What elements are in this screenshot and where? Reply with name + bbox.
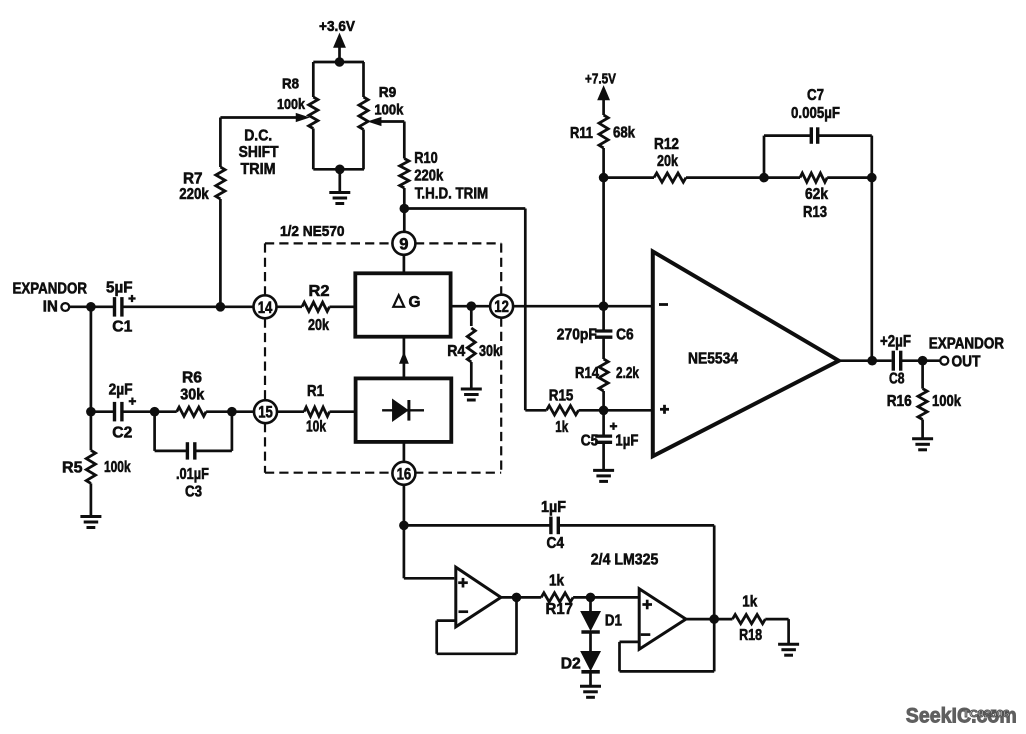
svg-text:C4: C4 xyxy=(547,535,565,552)
svg-text:SHIFT: SHIFT xyxy=(239,144,279,161)
block diode box xyxy=(356,378,452,442)
svg-text:0.005µF: 0.005µF xyxy=(791,105,840,122)
resistor R7 220k xyxy=(216,167,225,199)
pin 9 circle xyxy=(392,232,415,255)
node U2a output junction xyxy=(512,593,522,603)
node D1 junction xyxy=(586,593,596,603)
svg-text:100k: 100k xyxy=(277,96,306,113)
node R4 junction xyxy=(467,301,477,311)
plus sign U1 xyxy=(660,408,669,411)
dashed box 1/2 NE570 top edge xyxy=(265,242,392,244)
wire C7 branch left xyxy=(763,136,766,178)
node R6 left junction xyxy=(150,407,160,417)
svg-text:1k: 1k xyxy=(549,572,564,589)
minus sign U2b xyxy=(641,633,651,636)
wire U2b feedback xyxy=(620,641,640,644)
ground C5 xyxy=(602,442,605,470)
svg-text:2µF: 2µF xyxy=(109,382,133,399)
plus C5 xyxy=(610,425,617,427)
svg-text:R8: R8 xyxy=(282,76,299,93)
wire R10 to pin9 xyxy=(403,188,406,232)
op-amp U2a xyxy=(456,567,501,627)
resistor R15 1k xyxy=(525,409,546,412)
svg-text:1/2 NE570: 1/2 NE570 xyxy=(280,223,345,240)
svg-text:R4: R4 xyxy=(447,343,465,360)
plus C1 xyxy=(128,297,135,299)
svg-text:TRIM: TRIM xyxy=(241,161,276,178)
capacitor C7 0.005uF xyxy=(810,127,813,144)
wire pin15 to R1 xyxy=(277,410,304,413)
svg-text:R5: R5 xyxy=(62,459,83,476)
svg-text:R7: R7 xyxy=(183,171,203,188)
resistor R14 2.2k xyxy=(599,359,608,391)
svg-text:C7: C7 xyxy=(807,87,824,104)
svg-text:+3.6V: +3.6V xyxy=(319,18,355,35)
svg-text:R12: R12 xyxy=(654,136,679,153)
svg-text:68k: 68k xyxy=(613,125,635,142)
svg-text:C8: C8 xyxy=(889,371,905,388)
resistor R1 10k xyxy=(304,407,329,416)
wire to op-amp1 plus xyxy=(403,525,406,578)
wire C6 top xyxy=(602,306,605,331)
wire pin12 to op-amp xyxy=(513,305,653,308)
svg-text:NE5534: NE5534 xyxy=(688,351,738,368)
svg-text:D.C.: D.C. xyxy=(244,127,272,144)
wire R7 top xyxy=(219,118,222,168)
wire C8 to OUT xyxy=(900,359,940,362)
svg-text:R2: R2 xyxy=(309,283,330,300)
node U2b output junction xyxy=(709,614,719,624)
node C6 top junction xyxy=(599,301,609,311)
svg-text:R17: R17 xyxy=(546,601,574,618)
svg-text:C6: C6 xyxy=(616,327,634,344)
wire D1 to D2 xyxy=(589,632,592,652)
wire R6 to pin15 xyxy=(206,410,254,413)
svg-text:30k: 30k xyxy=(180,387,204,404)
resistor R2 20k xyxy=(302,302,330,311)
svg-text:R6: R6 xyxy=(182,370,202,387)
svg-text:R13: R13 xyxy=(803,204,827,221)
node C7 left junction xyxy=(759,173,769,183)
wire C2 to R6 xyxy=(122,410,176,413)
arrow R8 wiper xyxy=(297,114,308,121)
wire op-amp output xyxy=(839,359,892,362)
svg-text:20k: 20k xyxy=(308,317,329,334)
svg-text:100k: 100k xyxy=(374,101,404,118)
node R6 right junction xyxy=(227,407,237,417)
pin 14 circle xyxy=(254,295,277,318)
wire pin9 to deltaG box xyxy=(403,255,406,274)
pin 12 circle xyxy=(490,295,513,318)
diode D2 xyxy=(581,652,599,670)
svg-text:10k: 10k xyxy=(306,419,326,436)
svg-text:2/4 LM325: 2/4 LM325 xyxy=(591,552,659,569)
wire R7 bottom xyxy=(219,199,222,307)
svg-text:R11: R11 xyxy=(570,125,593,142)
resistor R12 20k xyxy=(654,173,686,182)
svg-text:R1: R1 xyxy=(307,383,324,400)
resistor R9 100k xyxy=(359,97,368,130)
wire U2a feedback xyxy=(437,619,456,622)
plus sign U2a xyxy=(458,581,468,584)
wire R11 junction down xyxy=(602,178,605,307)
pin 15 circle xyxy=(254,400,277,423)
resistor R16 100k xyxy=(921,361,924,389)
wire R2 to deltaG box xyxy=(330,305,356,308)
wire R12 to R13 xyxy=(686,176,800,179)
symbol delta xyxy=(393,295,404,307)
minus sign U1 xyxy=(659,303,668,306)
capacitor C8 2uF xyxy=(892,351,895,371)
svg-text:R9: R9 xyxy=(379,84,397,101)
node input junction xyxy=(86,302,96,312)
wire C4 left xyxy=(404,524,550,527)
svg-text:C5: C5 xyxy=(581,432,599,449)
wire deltaG to diode box xyxy=(403,337,406,379)
svg-text:220k: 220k xyxy=(414,167,443,184)
wire input vertical xyxy=(90,307,93,412)
svg-text:G: G xyxy=(409,294,421,311)
svg-text:1µF: 1µF xyxy=(541,499,566,516)
wire diode box to pin16 xyxy=(403,442,406,463)
ground D2 xyxy=(589,672,592,686)
wire R13 right xyxy=(827,176,872,179)
svg-text:R10: R10 xyxy=(414,150,438,167)
ground R5 xyxy=(90,483,93,516)
capacitor C2 2uF xyxy=(113,402,116,422)
svg-text:1µF: 1µF xyxy=(615,432,638,449)
capacitor C6 270pF xyxy=(595,329,613,332)
op-amp U1 NE5534 xyxy=(653,252,839,457)
svg-text:16: 16 xyxy=(397,464,412,483)
plus sign U2b xyxy=(642,603,652,606)
diode D1 xyxy=(581,612,599,630)
wire pin14 to R2 xyxy=(276,305,302,308)
wire R12 left xyxy=(604,176,654,179)
wire feedback down xyxy=(870,178,873,361)
wire to op-amp plus xyxy=(604,409,653,412)
svg-text:100k: 100k xyxy=(104,459,131,476)
svg-text:+7.5V: +7.5V xyxy=(585,71,616,88)
node trimmer top junction xyxy=(335,57,345,67)
wire C6 to R14 xyxy=(602,337,605,359)
ground R4 xyxy=(470,362,473,389)
capacitor C5 1uF xyxy=(602,410,605,436)
op-amp U2b xyxy=(639,589,686,650)
wire R4 top xyxy=(470,306,473,326)
resistor R4 30k xyxy=(467,328,475,362)
svg-text:2.2k: 2.2k xyxy=(616,365,639,382)
plus C2 xyxy=(129,400,136,402)
svg-text:EXPANDOR: EXPANDOR xyxy=(929,336,1004,353)
svg-text:C3: C3 xyxy=(185,484,202,501)
wire R14 bottom xyxy=(602,391,605,410)
capacitor C3 .01uF xyxy=(186,442,189,459)
node trimmer bottom junction xyxy=(335,165,345,175)
capacitor C4 1uF xyxy=(549,517,552,535)
wire R17 to op-amp2 xyxy=(573,596,638,599)
minus sign U2a xyxy=(459,610,469,613)
power +3.6V arrow xyxy=(334,35,345,48)
svg-text:+2µF: +2µF xyxy=(880,332,911,351)
ground trimmer xyxy=(338,169,341,192)
svg-text:R15: R15 xyxy=(549,387,574,404)
node R7 bottom junction xyxy=(216,302,226,312)
diode in box xyxy=(382,409,424,411)
svg-text:1k: 1k xyxy=(742,594,757,611)
wire R9 wiper xyxy=(381,120,404,123)
ground R16 xyxy=(921,420,924,439)
svg-text:30k: 30k xyxy=(479,343,500,360)
wire THD to R15 column xyxy=(404,207,525,210)
resistor R17 1k xyxy=(541,593,573,602)
node plus input junction xyxy=(599,406,609,416)
resistor R18 1k xyxy=(733,615,766,624)
svg-text:R14: R14 xyxy=(575,365,599,382)
node R12 left junction xyxy=(599,173,609,183)
svg-text:R16: R16 xyxy=(887,393,912,410)
svg-text:9: 9 xyxy=(399,234,408,253)
svg-text:.01µF: .01µF xyxy=(176,466,209,483)
dashed box bottom edge xyxy=(265,472,393,474)
wire deltaG out xyxy=(451,305,493,308)
svg-text:IN: IN xyxy=(43,299,58,316)
wire IN to C1 xyxy=(69,305,114,308)
wire pin16 down xyxy=(403,485,406,526)
node C4 junction xyxy=(399,521,409,531)
arrow R9 wiper xyxy=(370,118,381,125)
wire C1 to pin14 xyxy=(122,305,254,308)
svg-text:R18: R18 xyxy=(739,627,762,644)
pin 16 circle xyxy=(392,462,415,485)
resistor R8 100k xyxy=(309,97,318,129)
wire C3 branch xyxy=(153,412,156,451)
svg-text:14: 14 xyxy=(258,298,273,317)
svg-text:C2: C2 xyxy=(112,425,132,442)
svg-text:100k: 100k xyxy=(932,393,961,410)
svg-text:OUT: OUT xyxy=(952,354,981,371)
dashed box left edge xyxy=(264,243,266,296)
node C2 junction xyxy=(86,407,96,417)
svg-text:62k: 62k xyxy=(805,186,828,203)
svg-text:T.H.D. TRIM: T.H.D. TRIM xyxy=(415,186,489,203)
wire trimmer bottom rail xyxy=(312,129,315,170)
terminal OUT open circle xyxy=(940,357,948,365)
arrow up on wire xyxy=(400,354,408,364)
svg-text:12: 12 xyxy=(494,297,509,316)
terminal IN open circle xyxy=(61,303,69,311)
svg-text:20k: 20k xyxy=(657,153,678,170)
wire C2 left xyxy=(91,410,114,413)
svg-text:1k: 1k xyxy=(555,419,568,436)
node R10 junction xyxy=(400,204,410,214)
wire R18 right xyxy=(765,618,788,621)
resistor R13 62k xyxy=(800,173,827,182)
wire R8 wiper xyxy=(220,116,298,119)
dashed box right edge xyxy=(500,243,502,295)
resistor R11 68k xyxy=(599,115,608,148)
wire R1 to diode box xyxy=(330,410,356,413)
wire R11 bottom xyxy=(602,148,605,178)
svg-text:15: 15 xyxy=(258,403,273,422)
resistor R10 220k xyxy=(400,159,409,189)
ground R18 xyxy=(778,643,799,646)
wire C4 right xyxy=(559,524,714,527)
svg-text:EXPANDOR: EXPANDOR xyxy=(13,280,88,297)
svg-text:270pF: 270pF xyxy=(557,327,597,344)
svg-text:220k: 220k xyxy=(179,186,209,203)
wire C7 branch right xyxy=(819,134,872,137)
resistor R6 30k xyxy=(177,407,206,416)
svg-text:C1: C1 xyxy=(112,319,132,336)
svg-text:D2: D2 xyxy=(561,656,581,673)
svg-text:5µF: 5µF xyxy=(106,280,133,297)
svg-text:TC02506: TC02506 xyxy=(963,708,1010,720)
wire trimmer top rail xyxy=(313,61,364,64)
node output junction xyxy=(867,356,877,366)
svg-text:D1: D1 xyxy=(605,613,622,630)
resistor R5 100k xyxy=(90,412,93,451)
node R13 right junction xyxy=(867,173,877,183)
wire D1 top xyxy=(589,597,592,612)
power +7.5V arrow xyxy=(598,87,609,100)
block deltaG box xyxy=(355,273,450,336)
wire U2b output xyxy=(686,618,733,621)
node R16 junction xyxy=(918,356,928,366)
capacitor C1 5uF xyxy=(113,297,116,317)
wire U2a output xyxy=(501,596,541,599)
